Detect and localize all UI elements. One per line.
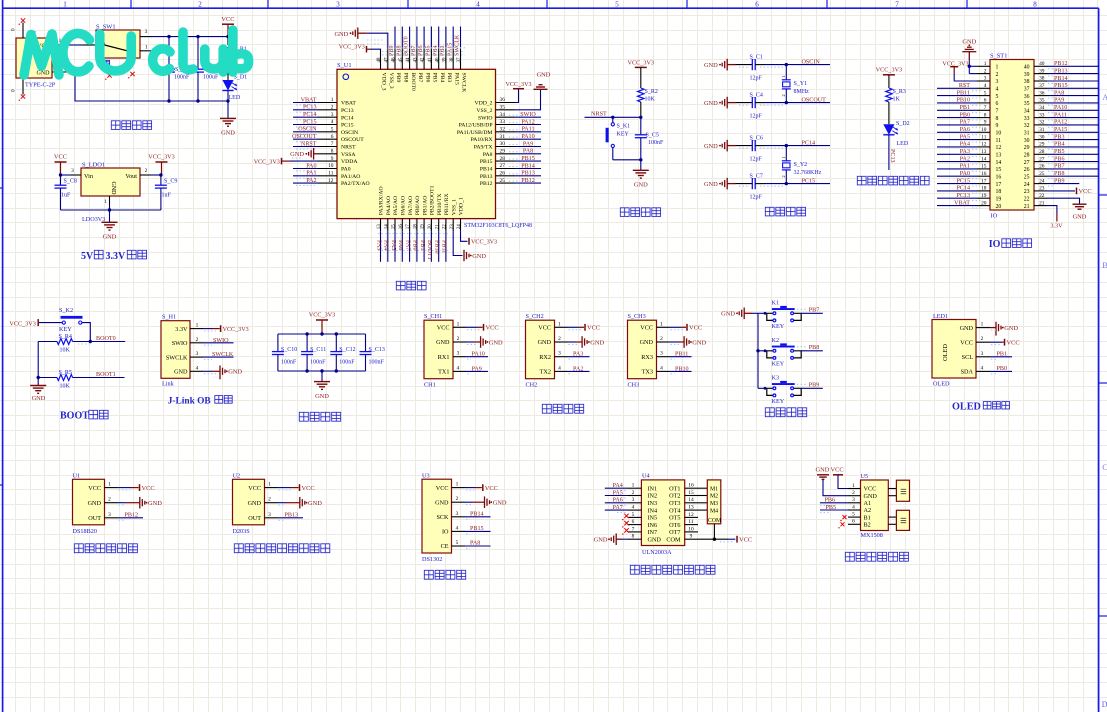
svg-text:PC15: PC15 xyxy=(303,119,317,125)
T1 pin 0 top xyxy=(22,23,24,39)
svg-text:38: 38 xyxy=(1039,76,1045,82)
resistor S_R2 10K xyxy=(638,88,644,102)
S_CH1 pin 3 RX1 xyxy=(453,356,466,358)
svg-text:PC13: PC13 xyxy=(341,108,354,114)
caption PIR module xyxy=(234,544,243,553)
svg-text:S_CH3: S_CH3 xyxy=(628,313,646,320)
svg-text:IN4: IN4 xyxy=(648,507,658,514)
svg-text:S_U1: S_U1 xyxy=(337,62,352,69)
svg-text:36: 36 xyxy=(1039,90,1045,96)
U1 pin 12 PA2/TX/AO xyxy=(318,182,338,184)
svg-text:28: 28 xyxy=(1039,149,1045,155)
motor connector M1-M5 xyxy=(698,487,707,489)
svg-text:6: 6 xyxy=(852,519,855,525)
U1 pin 41 PB5 xyxy=(430,49,432,70)
svg-text:Vin: Vin xyxy=(84,173,93,180)
svg-text:5: 5 xyxy=(615,1,619,9)
ST1 pin 10 xyxy=(977,131,990,133)
svg-text:2: 2 xyxy=(145,168,148,174)
power port VCC_3V3 at U1 pin24 xyxy=(461,231,468,241)
svg-text:40: 40 xyxy=(1024,65,1030,71)
svg-text:VCC: VCC xyxy=(248,485,261,492)
svg-text:4: 4 xyxy=(660,365,663,371)
svg-text:VCC: VCC xyxy=(864,486,877,493)
svg-text:S_R5: S_R5 xyxy=(59,370,72,376)
svg-text:KEY: KEY xyxy=(772,323,785,330)
capacitor S_C5 100nF xyxy=(640,117,642,135)
svg-text:VCC: VCC xyxy=(1079,188,1092,195)
svg-text:1: 1 xyxy=(996,65,999,71)
wire GND to U5 pin2 xyxy=(823,480,848,496)
ST1 pin 24 xyxy=(1034,183,1047,185)
U1 pin 27 PB14 xyxy=(496,168,516,170)
wire filter bottom rail xyxy=(278,370,366,372)
svg-text:PA2: PA2 xyxy=(960,156,970,162)
svg-text:19: 19 xyxy=(981,193,987,199)
svg-text:MX1508: MX1508 xyxy=(861,532,883,539)
ST1 pin 15 xyxy=(977,168,990,170)
svg-text:VCC_3V3: VCC_3V3 xyxy=(505,82,531,88)
svg-text:J-Link OB: J-Link OB xyxy=(168,397,211,407)
svg-text:S_C11: S_C11 xyxy=(310,347,326,353)
svg-text:VSSA: VSSA xyxy=(341,152,356,158)
svg-text:1: 1 xyxy=(981,322,984,328)
U5 pin 6 B2 xyxy=(848,523,861,525)
svg-text:LED: LED xyxy=(229,95,241,101)
svg-text:2: 2 xyxy=(196,337,199,343)
svg-text:100nF: 100nF xyxy=(310,359,326,365)
ST1 pin 29 xyxy=(1034,146,1047,148)
net PA6 wire xyxy=(605,502,628,504)
svg-text:GND: GND xyxy=(704,62,718,69)
svg-text:12: 12 xyxy=(996,145,1002,151)
svg-text:22: 22 xyxy=(1024,196,1030,202)
capacitor S_C7 12pF xyxy=(736,183,753,185)
ST1 pin 34 xyxy=(1034,109,1047,111)
svg-text:46: 46 xyxy=(392,57,397,63)
net PA8 wire xyxy=(465,545,491,547)
svg-text:IN3: IN3 xyxy=(648,500,658,507)
svg-text:OT7: OT7 xyxy=(669,529,680,536)
svg-text:VCC: VCC xyxy=(221,16,234,23)
ST1 pin 9 xyxy=(977,124,990,126)
caption power circuit xyxy=(111,121,120,130)
ST1 pin 12 xyxy=(977,146,990,148)
capacitor S_C6 12pF xyxy=(736,145,753,147)
svg-text:KEY: KEY xyxy=(772,361,785,368)
svg-text:3: 3 xyxy=(456,511,459,517)
ground GND ST1 pin22 xyxy=(1047,198,1080,204)
svg-text:3: 3 xyxy=(108,512,111,518)
svg-text:S_SW1: S_SW1 xyxy=(96,23,116,30)
svg-text:PB9: PB9 xyxy=(395,73,401,83)
svg-text:7: 7 xyxy=(996,109,999,115)
svg-text:PB14: PB14 xyxy=(521,163,535,169)
svg-text:PC14: PC14 xyxy=(341,115,354,121)
ST1 pin 17 xyxy=(977,183,990,185)
svg-text:PA3: PA3 xyxy=(375,240,381,250)
svg-text:4: 4 xyxy=(558,365,561,371)
svg-text:PB14: PB14 xyxy=(1054,76,1068,82)
svg-text:PB13: PB13 xyxy=(1054,68,1068,74)
svg-text:1: 1 xyxy=(268,482,271,488)
svg-text:PB10: PB10 xyxy=(434,240,440,254)
svg-text:S_C12: S_C12 xyxy=(339,347,355,353)
power port VCC ST1 pin23 xyxy=(1047,190,1075,192)
U1 pin 18 PB0/AO xyxy=(416,219,418,232)
svg-text:PC15: PC15 xyxy=(956,178,970,184)
svg-text:KEY: KEY xyxy=(59,326,72,333)
svg-text:42: 42 xyxy=(421,57,426,63)
svg-text:31: 31 xyxy=(500,134,506,140)
svg-text:M1: M1 xyxy=(710,486,718,492)
net PB15 wire xyxy=(465,530,491,532)
svg-text:10K: 10K xyxy=(60,383,71,389)
svg-text:PA9/TX: PA9/TX xyxy=(474,145,493,151)
S_CH3 pin 1 VCC xyxy=(657,326,670,328)
caption main chip xyxy=(396,281,405,290)
svg-text:PB14: PB14 xyxy=(470,511,484,517)
svg-text:GND: GND xyxy=(174,369,188,376)
wire GND net to bottom rail xyxy=(70,72,228,101)
svg-text:OT1: OT1 xyxy=(669,485,680,492)
svg-text:14: 14 xyxy=(688,497,694,503)
svg-text:PA10: PA10 xyxy=(521,134,534,140)
svg-text:2: 2 xyxy=(984,68,987,74)
svg-text:19: 19 xyxy=(996,196,1002,202)
U4 pin 4 IN4 xyxy=(628,509,641,511)
net PA3 wire xyxy=(568,356,590,358)
U1 pin 45 PB8 xyxy=(401,49,403,70)
svg-text:GND: GND xyxy=(228,369,242,376)
wire keys trunk xyxy=(757,313,759,388)
svg-text:OSCOUT: OSCOUT xyxy=(802,97,827,103)
svg-text:14: 14 xyxy=(996,160,1002,166)
no-ERC mark top xyxy=(21,18,25,22)
svg-text:LED: LED xyxy=(897,141,909,147)
ST1 pin 20 xyxy=(977,205,990,207)
U1 pin 17 PA7/AO xyxy=(409,219,411,232)
capacitor S_C2 100nF xyxy=(168,37,170,70)
capacitor S_C9 1uF xyxy=(160,175,162,185)
svg-text:U5: U5 xyxy=(861,473,869,480)
caption program run indicator xyxy=(857,176,866,185)
LED1 pin 3 SCL xyxy=(976,356,990,358)
svg-text:10: 10 xyxy=(328,163,334,169)
ST1 pin 28 xyxy=(1034,153,1047,155)
svg-text:16: 16 xyxy=(688,483,694,489)
ground GND S_CH1 xyxy=(466,341,474,343)
svg-text:VDD_1: VDD_1 xyxy=(459,197,465,215)
U1 pin 30 PA9/TX xyxy=(496,146,516,148)
svg-text:13: 13 xyxy=(996,153,1002,159)
no-ERC mark U4 xyxy=(624,521,628,526)
svg-text:PB6: PB6 xyxy=(424,73,430,83)
net PA7 wire xyxy=(605,509,628,511)
svg-text:1: 1 xyxy=(196,323,199,329)
svg-text:13: 13 xyxy=(377,224,382,230)
svg-text:STM32F103C8T6_LQFP48: STM32F103C8T6_LQFP48 xyxy=(464,223,532,229)
capacitor S_C1 12pF xyxy=(736,64,753,66)
svg-text:5: 5 xyxy=(632,512,635,518)
power port VCC stepper xyxy=(736,536,738,543)
U3 pin 3 SCK xyxy=(452,516,466,518)
svg-text:28: 28 xyxy=(1024,153,1030,159)
ST1 pin 19 xyxy=(977,197,990,199)
svg-text:PA2: PA2 xyxy=(306,178,316,184)
svg-text:U3: U3 xyxy=(422,473,430,480)
svg-text:VCC: VCC xyxy=(538,325,551,332)
svg-text:4: 4 xyxy=(632,505,635,511)
watermark MCUclub xyxy=(24,30,249,75)
svg-text:3: 3 xyxy=(558,351,561,357)
wire ldo bottom rail xyxy=(61,209,161,211)
LED S_D2 xyxy=(888,102,890,124)
svg-text:PC13: PC13 xyxy=(889,149,895,163)
svg-text:1: 1 xyxy=(456,482,459,488)
power port VCC S_CH1 xyxy=(466,326,477,328)
svg-text:3: 3 xyxy=(660,351,663,357)
net SWCLK wire xyxy=(203,356,234,358)
H1 pin 3 SWCLK xyxy=(190,356,203,358)
power port VCC S_CH2 xyxy=(568,326,579,328)
svg-text:100nF: 100nF xyxy=(339,359,355,365)
svg-text:4: 4 xyxy=(984,83,987,89)
ST1 pin 13 xyxy=(977,153,990,155)
ST1 pin 3 xyxy=(977,80,990,82)
svg-text:1K: 1K xyxy=(893,97,901,103)
svg-text:23: 23 xyxy=(1039,186,1045,192)
svg-text:S_C7: S_C7 xyxy=(750,173,763,179)
S_CH2 pin 3 RX2 xyxy=(555,356,568,358)
svg-text:35: 35 xyxy=(1024,101,1030,107)
svg-text:48: 48 xyxy=(377,57,382,63)
ground GND power block xyxy=(227,101,229,118)
svg-text:IN6: IN6 xyxy=(648,522,658,529)
U4 pin 11 OT6 xyxy=(685,524,698,526)
svg-text:PB8: PB8 xyxy=(1054,171,1065,177)
svg-text:GND: GND xyxy=(816,467,830,474)
U1 pin 23 VSS_1 xyxy=(452,219,454,232)
svg-text:PA15: PA15 xyxy=(453,73,459,86)
ground GND oled xyxy=(990,327,996,329)
svg-text:GND: GND xyxy=(590,339,604,346)
svg-text:23: 23 xyxy=(1024,189,1030,195)
svg-text:RX3: RX3 xyxy=(641,354,653,361)
svg-text:VCC: VCC xyxy=(54,154,67,161)
U4 pin 6 IN6 xyxy=(628,524,641,526)
svg-text:GND: GND xyxy=(864,493,878,500)
svg-text:OSCIN: OSCIN xyxy=(298,127,317,133)
svg-text:IN1: IN1 xyxy=(648,485,658,492)
svg-text:OSCOUT: OSCOUT xyxy=(292,134,317,140)
svg-text:27: 27 xyxy=(500,163,506,169)
svg-text:TX2: TX2 xyxy=(540,369,551,376)
svg-text:BOOT: BOOT xyxy=(60,411,89,422)
svg-text:28: 28 xyxy=(500,156,506,162)
svg-text:30: 30 xyxy=(500,141,506,147)
ground GND S_CH2 xyxy=(568,341,576,343)
svg-text:15: 15 xyxy=(688,490,694,496)
svg-text:VCC_3V3: VCC_3V3 xyxy=(339,45,365,51)
resistor S_R5 10K xyxy=(37,342,39,378)
svg-text:2: 2 xyxy=(108,497,111,503)
svg-text:OSCIN: OSCIN xyxy=(802,59,821,65)
svg-text:PA1: PA1 xyxy=(306,171,316,177)
U4 pin 13 OT4 xyxy=(685,509,698,511)
svg-text:GND: GND xyxy=(704,181,718,188)
caption stepper motor xyxy=(630,565,639,574)
svg-text:OLED: OLED xyxy=(952,401,981,412)
svg-text:1: 1 xyxy=(632,483,635,489)
net PB11 wire xyxy=(670,356,692,358)
svg-text:14: 14 xyxy=(384,224,389,230)
svg-text:S_H1: S_H1 xyxy=(162,313,176,320)
svg-text:40: 40 xyxy=(435,57,440,63)
svg-text:24: 24 xyxy=(1024,182,1030,188)
svg-text:PA7: PA7 xyxy=(613,505,623,511)
svg-text:IN5: IN5 xyxy=(648,515,658,522)
svg-text:PB4: PB4 xyxy=(1054,142,1065,148)
svg-text:PA1: PA1 xyxy=(960,164,970,170)
svg-text:8: 8 xyxy=(1033,1,1037,9)
wire VCC rail top xyxy=(152,36,228,38)
svg-text:24: 24 xyxy=(1039,178,1045,184)
svg-text:4: 4 xyxy=(196,365,199,371)
ground GND reset xyxy=(640,160,642,170)
svg-text:PA5: PA5 xyxy=(390,240,396,250)
U1 pin 7 NRST xyxy=(318,146,338,148)
U1 pin 16 PA6/AO xyxy=(401,219,403,232)
svg-text:GND: GND xyxy=(248,500,262,507)
svg-text:15: 15 xyxy=(981,164,987,170)
svg-text:PB1: PB1 xyxy=(419,240,425,251)
svg-text:5V: 5V xyxy=(81,251,94,262)
svg-text:20: 20 xyxy=(996,204,1002,210)
ST1 pin 27 xyxy=(1034,161,1047,163)
svg-text:GND: GND xyxy=(290,151,304,158)
net PB0 wire xyxy=(990,370,1012,372)
caption clock module xyxy=(424,570,433,579)
svg-text:20: 20 xyxy=(428,224,433,230)
svg-text:26: 26 xyxy=(1039,164,1045,170)
svg-text:VCC_3V3: VCC_3V3 xyxy=(223,327,249,333)
svg-text:VCC: VCC xyxy=(689,325,702,332)
svg-text:1: 1 xyxy=(104,199,107,205)
U1 pin 47 VSS_3 xyxy=(387,49,389,70)
svg-text:3: 3 xyxy=(268,512,271,518)
svg-text:2: 2 xyxy=(456,496,459,502)
svg-text:RX2: RX2 xyxy=(539,354,551,361)
svg-text:OUT: OUT xyxy=(248,515,261,522)
svg-text:TYPE-C-2P: TYPE-C-2P xyxy=(25,82,56,89)
svg-text:29: 29 xyxy=(1039,142,1045,148)
svg-text:PB11: PB11 xyxy=(675,352,688,358)
svg-text:A2: A2 xyxy=(864,507,872,514)
svg-text:SWCLK: SWCLK xyxy=(461,73,467,94)
svg-text:NRST: NRST xyxy=(301,141,317,147)
svg-text:S_C8: S_C8 xyxy=(64,179,77,185)
svg-text:PB8: PB8 xyxy=(809,345,820,351)
svg-text:2: 2 xyxy=(632,490,635,496)
svg-text:14: 14 xyxy=(981,156,987,162)
ground GND S_CH3 xyxy=(670,341,678,343)
LED D1 xyxy=(227,60,229,80)
svg-text:S_Y2: S_Y2 xyxy=(794,162,808,168)
U2 pin 2 GND xyxy=(265,502,278,504)
U4 pin 15 OT2 xyxy=(685,495,698,497)
svg-text:PA4: PA4 xyxy=(960,142,970,148)
U1 pin 44 BOOT0 xyxy=(409,49,411,70)
svg-text:PA9: PA9 xyxy=(472,366,482,372)
svg-text:32.768KHz: 32.768KHz xyxy=(794,170,822,176)
svg-text:6: 6 xyxy=(984,98,987,104)
U3 pin 4 IO xyxy=(452,530,466,532)
ground GND filter xyxy=(321,371,323,381)
svg-text:PA6: PA6 xyxy=(960,127,970,133)
svg-text:VCC: VCC xyxy=(1007,339,1020,346)
U4 pin 3 IN3 xyxy=(628,502,641,504)
svg-text:BOOT0: BOOT0 xyxy=(410,73,416,91)
svg-text:GND: GND xyxy=(960,325,974,332)
ground GND clock xyxy=(465,501,473,503)
svg-text:8: 8 xyxy=(984,112,987,118)
svg-text:GND: GND xyxy=(538,339,552,346)
svg-text:SWIO: SWIO xyxy=(520,112,536,118)
svg-text:17: 17 xyxy=(406,224,411,230)
svg-text:39: 39 xyxy=(1039,68,1045,74)
U1 pin 43 PB7 xyxy=(416,49,418,70)
svg-text:19: 19 xyxy=(421,224,426,230)
svg-text:10K: 10K xyxy=(60,347,71,353)
ground GND U2 xyxy=(278,502,286,504)
svg-text:22: 22 xyxy=(443,224,448,230)
svg-text:PA5/AO: PA5/AO xyxy=(393,196,399,215)
svg-text:10: 10 xyxy=(981,127,987,133)
U4 pin 10 OT7 xyxy=(685,531,698,533)
svg-text:34: 34 xyxy=(1039,105,1045,111)
svg-text:PB7: PB7 xyxy=(417,73,423,83)
svg-text:1: 1 xyxy=(781,156,786,158)
U1 pin 37 SWCLK xyxy=(460,49,462,70)
svg-text:PA0: PA0 xyxy=(960,171,970,177)
U1 pin 10 PA0 xyxy=(318,168,338,170)
svg-text:PB13: PB13 xyxy=(521,171,535,177)
ST1 pin 1 xyxy=(977,65,990,67)
svg-text:PA0: PA0 xyxy=(306,163,316,169)
svg-text:PB0: PB0 xyxy=(959,112,970,118)
T1 pin 0 bottom xyxy=(22,78,24,95)
capacitor S_C12 100nF xyxy=(335,334,337,352)
svg-text:GND: GND xyxy=(489,339,503,346)
svg-text:41: 41 xyxy=(428,57,433,63)
svg-text:RST: RST xyxy=(959,83,970,89)
svg-text:VSS_1: VSS_1 xyxy=(451,199,457,215)
svg-text:7: 7 xyxy=(331,141,334,147)
ST1 pin 4 xyxy=(977,87,990,89)
U4 pin 8 GND xyxy=(628,538,641,540)
svg-text:8: 8 xyxy=(632,534,635,540)
svg-text:PC13: PC13 xyxy=(956,193,970,199)
svg-text:30: 30 xyxy=(1024,138,1030,144)
power port VCC_3V3 jlink xyxy=(203,328,212,330)
wire filter top rail xyxy=(278,333,366,335)
svg-text:VCC: VCC xyxy=(739,537,752,544)
ST1 pin 2 xyxy=(977,73,990,75)
dotted marks under U1 xyxy=(378,233,450,235)
svg-text:6: 6 xyxy=(755,1,759,9)
svg-text:2: 2 xyxy=(852,490,855,496)
